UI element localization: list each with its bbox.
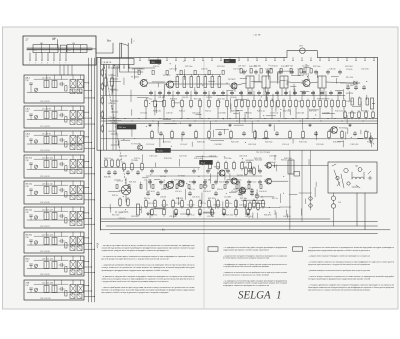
svg-text:КВ 25м: КВ 25м	[26, 157, 33, 159]
resistor R1	[145, 99, 148, 108]
wire stub l35	[273, 163, 275, 168]
capacitor C4	[176, 91, 179, 96]
svg-text:R31 910: R31 910	[217, 66, 225, 68]
transistor Т2	[165, 81, 173, 88]
wire stub u43	[297, 69, 299, 75]
wire hseg u30	[132, 68, 142, 70]
module КВ 31м trim pack	[70, 195, 82, 200]
resistor R88	[199, 208, 202, 216]
wafer part 0	[138, 70, 140, 74]
wire stub b13	[337, 91, 339, 99]
junction u29	[372, 142, 375, 145]
wire stub u57	[349, 91, 351, 100]
capacitor C8	[212, 91, 215, 96]
resistor R29	[343, 99, 346, 108]
svg-text:С40 30: С40 30	[239, 205, 245, 207]
border stub 0	[139, 57, 142, 61]
module КВ 49м coil La	[44, 238, 49, 245]
inverted label Л3-2	[200, 160, 213, 164]
lower chain hwire 1	[101, 167, 200, 169]
junction l11	[197, 168, 200, 171]
svg-text:R37 10к: R37 10к	[286, 66, 293, 68]
upper border right wire	[377, 57, 379, 150]
label СВ-2	[26, 133, 31, 138]
diode block Д2	[294, 172, 300, 177]
junction u23	[158, 63, 161, 66]
wire stub l29	[314, 187, 316, 197]
svg-text:С29 5-20 R7: С29 5-20 R7	[40, 226, 50, 228]
mini part 10	[236, 185, 238, 189]
wire stub u8	[157, 83, 159, 87]
svg-text:С25 0,05: С25 0,05	[169, 69, 178, 71]
border stub 16	[283, 57, 286, 61]
svg-text:ПМ: ПМ	[26, 186, 29, 188]
module СВ-1 capacitor mid	[59, 113, 65, 117]
resistor R32	[195, 130, 198, 139]
svg-text:С26 5-20 R6: С26 5-20 R6	[40, 202, 50, 204]
wire hseg u37	[108, 120, 121, 122]
svg-text:5: 5	[53, 63, 54, 65]
resistor R4	[172, 99, 175, 108]
svg-text:С17 5-20 R3: С17 5-20 R3	[40, 126, 50, 128]
svg-text:R15 120: R15 120	[174, 203, 181, 205]
svg-text:С60 20,0: С60 20,0	[131, 216, 139, 218]
module УКВ wire main	[27, 291, 82, 293]
wire stub u40	[117, 139, 119, 145]
capacitor C6	[194, 91, 197, 96]
dial lamp Л1	[121, 178, 131, 202]
wire stub u66	[234, 82, 236, 92]
svg-text:С31 680: С31 680	[346, 85, 353, 87]
capacitor C55	[203, 180, 206, 185]
svg-text:С49 10,0: С49 10,0	[118, 218, 125, 220]
labels lower extra	[147, 189, 267, 193]
wire stub l13	[154, 163, 156, 167]
module КВ-5 coil La	[44, 262, 49, 269]
svg-text:– из полистирола номинальная: – из полистирола номинальная выходная мо…	[308, 261, 394, 264]
antenna terminal 7	[65, 53, 66, 65]
resistor R38	[302, 130, 305, 139]
svg-text:С31 680: С31 680	[169, 216, 176, 218]
resistor R79	[344, 110, 347, 119]
coil L1a cell	[60, 45, 66, 52]
junction l17	[124, 208, 127, 211]
svg-text:в диапазоне средних волн катуш: в диапазоне средних волн катушки гетерод…	[102, 250, 169, 252]
svg-text:С40 30: С40 30	[166, 113, 173, 115]
svg-text:– от указанных на схеме велич: – от указанных на схеме величин на приве…	[308, 246, 394, 249]
svg-text:десяти процентов чувствительно: десяти процентов чувствительность с внут…	[102, 258, 170, 261]
resistor R77	[119, 197, 122, 206]
wire stub l5	[140, 182, 142, 188]
svg-text:R37 10к: R37 10к	[189, 181, 196, 183]
svg-text:С20 5-20 R4: С20 5-20 R4	[40, 150, 50, 152]
resistor R46	[181, 199, 184, 208]
capacitor C5	[185, 91, 188, 96]
resistor R19	[283, 99, 286, 108]
wire hseg u32	[152, 81, 165, 83]
capacitor C38	[146, 191, 149, 196]
capacitor C42	[238, 191, 241, 196]
wire hseg u8	[227, 90, 234, 92]
band module КВ 41м box	[24, 207, 84, 228]
module КВ-5 capacitor input	[30, 264, 33, 268]
wire stub u1	[230, 104, 232, 113]
module КВ 25м top stub wires	[47, 155, 81, 160]
ferrite antenna assembly box 27	[23, 36, 96, 65]
band module КВ 25м box	[24, 155, 84, 178]
svg-text:Т5 П15Д: Т5 П15Д	[339, 128, 348, 130]
svg-text:С55 0,5: С55 0,5	[175, 191, 182, 193]
wire stub u60	[272, 94, 274, 103]
wire hseg u5	[211, 140, 224, 142]
capacitor C63	[346, 85, 349, 90]
module УКВ trim pack	[70, 292, 82, 298]
resistor R15	[259, 99, 262, 108]
module КВ 25м capacitor mid	[59, 162, 65, 166]
wire hseg u33	[358, 137, 364, 139]
wire stub b2	[190, 91, 192, 99]
wire stub l4	[257, 213, 259, 218]
wire hseg l13	[180, 213, 191, 215]
ground	[175, 212, 178, 215]
wire stub l17	[142, 155, 144, 162]
wire stub u41	[293, 84, 295, 95]
capacitor C40	[188, 191, 191, 196]
module КВ-5 bus tap 1	[84, 261, 89, 262]
junction u35	[262, 114, 265, 117]
upper border left wire	[96, 57, 98, 150]
resistor R75	[131, 162, 134, 171]
upper border bottom wire	[97, 149, 378, 151]
svg-text:С31 680: С31 680	[204, 180, 211, 182]
module КВ 49м capacitor mid	[59, 239, 65, 243]
footnote text block 1	[102, 245, 196, 294]
junction u24	[245, 69, 248, 72]
module ДВ-1 resistor	[65, 86, 67, 92]
wire stub 0	[145, 108, 147, 119]
module КВ-5 trim pack	[70, 268, 82, 274]
labels lower mid 2	[114, 180, 270, 184]
module УКВ top stub wires	[47, 280, 81, 285]
capacitor C49	[113, 170, 116, 175]
svg-text:С25 0,05: С25 0,05	[192, 197, 200, 199]
wire hseg u35	[300, 90, 309, 92]
transistor Т9	[230, 178, 237, 184]
volume control R33	[371, 98, 375, 109]
switch column wires	[111, 65, 118, 151]
transistor Т6	[165, 182, 173, 189]
ground	[199, 212, 202, 215]
svg-text:и могут отличаться от указанны: и могут отличаться от указанных на схеме…	[223, 274, 269, 276]
band module УКВ box	[24, 280, 84, 300]
label КВ 49м	[26, 234, 33, 239]
capacitor C66	[242, 70, 245, 75]
capacitor C43	[250, 191, 253, 196]
wire stub l18	[257, 165, 259, 171]
band switch contact 5	[124, 65, 125, 69]
capacitor C33	[192, 169, 195, 174]
capacitor C26	[242, 131, 245, 136]
resistor R45	[172, 199, 175, 208]
footnote text block 2	[223, 246, 288, 287]
svg-text:С9 0,05: С9 0,05	[114, 180, 120, 182]
module КВ-5 bus tap 3	[84, 272, 95, 273]
svg-text:R40 470: R40 470	[219, 181, 226, 183]
meter loop wire	[287, 51, 317, 58]
IF transformer Ф4	[318, 76, 326, 95]
wire stub l38	[308, 159, 310, 165]
svg-text:при приеме слабой станции в ди: при приеме слабой станции в диапазоне ср…	[102, 291, 170, 294]
module СВ-2 coil La	[44, 137, 49, 144]
svg-text:С52 100: С52 100	[207, 216, 214, 218]
svg-text:С36 0,01: С36 0,01	[234, 180, 241, 182]
capacitor C72	[314, 70, 317, 75]
resistor R85	[163, 208, 166, 216]
junction u33	[200, 82, 203, 85]
resistor R89	[211, 208, 214, 216]
wire hseg l19	[204, 211, 214, 213]
feed wire 5	[103, 65, 105, 151]
svg-text:С31 680: С31 680	[158, 97, 165, 99]
transistor Т11	[264, 163, 271, 169]
module КВ 49м trim pack	[70, 245, 82, 250]
module КВ 31м wire main	[27, 194, 82, 196]
resistor R40	[341, 130, 344, 139]
capacitor C13	[257, 91, 260, 96]
wire stub u13	[294, 89, 296, 95]
wire stub l41	[224, 173, 226, 180]
resistor R3	[163, 99, 166, 108]
wire stub u69	[286, 80, 288, 85]
wire stub l15	[244, 204, 246, 215]
wire stub l25	[275, 213, 277, 218]
svg-text:2: 2	[35, 63, 36, 65]
capacitor C56	[214, 180, 217, 185]
svg-text:R28 1к: R28 1к	[112, 195, 118, 197]
top labels row	[137, 66, 369, 70]
wire hseg u27	[337, 141, 343, 143]
junction u15	[122, 138, 125, 141]
module УКВ wire upper	[34, 283, 68, 285]
resistor R81	[358, 110, 361, 119]
svg-text:С31 680: С31 680	[218, 113, 226, 115]
svg-text:С44 0,05: С44 0,05	[213, 205, 220, 207]
wire stub u67	[238, 112, 240, 123]
speaker box inner marks	[332, 164, 372, 187]
svg-text:Т6 П41: Т6 П41	[160, 176, 168, 178]
svg-text:Вкл.: Вкл.	[107, 41, 112, 43]
mini part 12	[260, 185, 262, 189]
wire stub u55	[251, 121, 253, 132]
wire hseg u21	[340, 82, 354, 84]
wire stub u51	[116, 65, 118, 76]
resistor R2	[154, 99, 157, 108]
switch feed wires	[120, 57, 155, 72]
module КВ 41м bus tap 1	[84, 212, 89, 213]
capacitor C69	[278, 70, 281, 75]
capacitor C54	[192, 180, 195, 185]
module КВ-5 wire main	[27, 267, 82, 269]
module КВ 25м wire upper	[34, 158, 68, 160]
wire hseg l0	[204, 156, 217, 158]
speaker unit box	[328, 162, 377, 193]
svg-text:R25 220: R25 220	[231, 142, 239, 144]
module КВ 41м trim pack	[70, 220, 82, 225]
band module СВ-1 box	[24, 106, 84, 128]
junction u3	[268, 64, 271, 67]
wire stub 4	[217, 108, 219, 119]
module КВ 49м capacitor input	[30, 240, 33, 245]
svg-text:ПМ: ПМ	[26, 285, 29, 287]
antenna box output wires	[60, 65, 72, 75]
resistor R86	[175, 208, 178, 216]
wire stub b9	[289, 91, 291, 99]
module КВ 41м bus tap 2	[84, 218, 92, 219]
transistor Т3	[230, 83, 237, 89]
wire stub u22	[134, 69, 136, 79]
wire hseg u6	[174, 102, 180, 104]
wire stub 2	[181, 108, 183, 119]
wire hseg u25	[137, 96, 148, 98]
module КВ-5 wire upper	[34, 259, 68, 261]
wire hseg l14	[241, 199, 255, 201]
module ДВ-1 top stub wires	[47, 75, 81, 80]
wire hseg u7	[216, 129, 229, 131]
wafer part 4	[194, 70, 196, 74]
labels lower dense	[148, 203, 259, 207]
lower left wire	[100, 150, 102, 230]
labels bias row	[238, 66, 309, 68]
svg-text:С60 20,0: С60 20,0	[248, 144, 257, 146]
resistor R69	[101, 68, 104, 76]
resistor R21	[295, 99, 298, 108]
transistor Т3а	[137, 145, 142, 150]
module ДВ-1 trim pack	[70, 89, 82, 94]
capacitor C58	[236, 180, 239, 185]
wire stub b6	[253, 91, 255, 99]
label КВ 25м	[26, 157, 33, 162]
svg-text:С44 0,05: С44 0,05	[119, 156, 128, 158]
resistor R31	[171, 130, 174, 139]
module КВ 49м wire main	[27, 244, 82, 246]
antenna terminal 5	[53, 53, 54, 65]
svg-text:Л2-2: Л2-2	[225, 61, 229, 63]
capacitor C47	[250, 188, 253, 193]
wire stub b12	[325, 91, 327, 99]
wire hseg u17	[266, 115, 276, 117]
svg-text:6: 6	[59, 63, 60, 65]
wire hseg l9	[196, 156, 204, 158]
svg-text:сердечником при приеме слабой: сердечником при приеме слабой станции в …	[223, 248, 270, 251]
svg-text:R40 470: R40 470	[176, 198, 183, 200]
mini part 0	[116, 185, 118, 189]
wire stub u10	[244, 114, 246, 122]
module УКВ resistor	[65, 291, 67, 297]
resistor R52	[235, 199, 238, 208]
wire stub u21	[307, 73, 309, 79]
svg-text:R31 910: R31 910	[170, 98, 177, 100]
svg-text:С44 0,05: С44 0,05	[296, 113, 305, 115]
svg-text:R15 120: R15 120	[335, 111, 343, 113]
wire hseg l11	[289, 194, 297, 196]
svg-text:С9 0,05: С9 0,05	[346, 69, 352, 71]
module ДВ-1 trimmer	[34, 88, 37, 92]
module СВ-2 bus tap 1	[84, 136, 89, 137]
separator wire	[289, 150, 291, 230]
svg-text:R25 220: R25 220	[226, 214, 233, 216]
wire stub u58	[345, 132, 347, 139]
svg-text:+6в ~: +6в ~	[160, 228, 168, 232]
wire hseg l2	[227, 178, 237, 180]
capacitor C34	[206, 169, 209, 174]
wire stub b5	[241, 91, 243, 99]
band switch contact 1	[104, 65, 105, 69]
wire hseg u13	[291, 75, 301, 77]
wire stub u29	[276, 72, 278, 84]
capacitor C1	[149, 91, 152, 96]
coil L1	[33, 45, 58, 53]
svg-text:чувствительность с внутренней: чувствительность с внутренней магнитной …	[308, 289, 370, 292]
wire hseg u14	[169, 80, 179, 82]
capacitor C14	[266, 91, 269, 96]
resistor R68	[117, 158, 120, 167]
border stub 19	[310, 57, 313, 61]
wire stub 11	[307, 108, 309, 119]
svg-text:– сигнала и могут отличаться: – сигнала и могут отличаться от указанны…	[308, 275, 395, 278]
capacitor C36	[248, 169, 251, 174]
wire stub u20	[130, 90, 132, 102]
wire stub l30	[172, 210, 174, 218]
resistor R47	[190, 199, 193, 208]
resistor R50	[217, 199, 220, 208]
module ДВ-1 coil Lb	[52, 81, 57, 88]
svg-text:С55 0,5: С55 0,5	[282, 144, 290, 146]
svg-text:Т3 П422: Т3 П422	[228, 79, 237, 81]
capacitor C15	[275, 91, 278, 96]
AGC resistor chain	[351, 98, 369, 105]
border stub 2	[157, 57, 160, 61]
svg-text:С55 0,5: С55 0,5	[209, 156, 217, 158]
wire stub l26	[244, 167, 246, 176]
module КВ 49м bus tap 3	[84, 249, 95, 250]
wire stub l28	[149, 210, 151, 218]
wire stub l32	[222, 202, 224, 209]
border stub 20	[319, 57, 322, 61]
speaker voice coil	[352, 172, 364, 179]
svg-text:С52 100: С52 100	[161, 205, 168, 207]
wire hseg u16	[240, 77, 247, 79]
wire hseg u15	[216, 94, 225, 96]
junction u28	[313, 105, 316, 108]
band switch contact 4	[119, 65, 120, 69]
wire hseg u38	[151, 100, 163, 102]
wire stub u30	[163, 84, 165, 94]
module СВ-2 resistor	[65, 142, 67, 148]
wire hseg l6	[280, 206, 291, 208]
wire hseg l7	[254, 199, 263, 201]
junction l3	[122, 195, 125, 198]
module КВ 49м resistor	[65, 243, 67, 249]
legend box bullet 1	[208, 247, 218, 251]
module КВ 31м coil Lb	[52, 187, 57, 194]
labels lower top row	[104, 156, 292, 160]
wire hseg l10	[229, 191, 236, 193]
label УКВ	[26, 282, 30, 287]
wire stub u14	[183, 69, 185, 79]
lower bus 5	[110, 233, 378, 235]
transistor Т8	[218, 170, 225, 176]
svg-text:С14 680: С14 680	[214, 144, 222, 146]
